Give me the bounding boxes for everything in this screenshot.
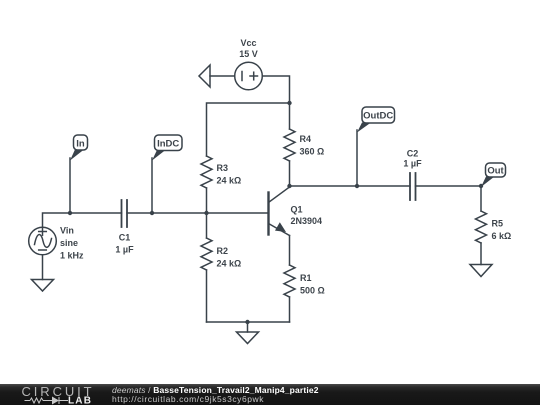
svg-text:6 kΩ: 6 kΩ: [492, 231, 512, 241]
svg-text:LAB: LAB: [68, 396, 92, 405]
svg-text:Q1: Q1: [291, 205, 303, 215]
svg-text:R2: R2: [217, 246, 229, 256]
svg-text:1 µF: 1 µF: [403, 158, 422, 168]
svg-text:OutDC: OutDC: [363, 111, 393, 122]
svg-text:C1: C1: [119, 233, 131, 243]
svg-text:R3: R3: [217, 163, 229, 173]
svg-text:Vin: Vin: [60, 226, 74, 236]
svg-text:C2: C2: [407, 149, 419, 159]
svg-text:24 kΩ: 24 kΩ: [217, 176, 242, 186]
svg-text:360 Ω: 360 Ω: [300, 147, 325, 157]
svg-text:R1: R1: [300, 273, 312, 283]
svg-text:InDC: InDC: [157, 139, 179, 150]
svg-text:15 V: 15 V: [239, 49, 258, 59]
svg-text:2N3904: 2N3904: [291, 216, 323, 226]
svg-text:sine: sine: [60, 238, 78, 248]
svg-text:Vcc: Vcc: [240, 38, 256, 48]
svg-text:R4: R4: [300, 134, 312, 144]
svg-text:Out: Out: [487, 166, 504, 177]
svg-text:R5: R5: [492, 219, 504, 229]
svg-text:1 µF: 1 µF: [115, 245, 134, 255]
svg-text:500 Ω: 500 Ω: [300, 286, 325, 296]
svg-text:In: In: [76, 139, 85, 150]
svg-text:1 kHz: 1 kHz: [60, 251, 84, 261]
svg-text:24 kΩ: 24 kΩ: [217, 259, 242, 269]
